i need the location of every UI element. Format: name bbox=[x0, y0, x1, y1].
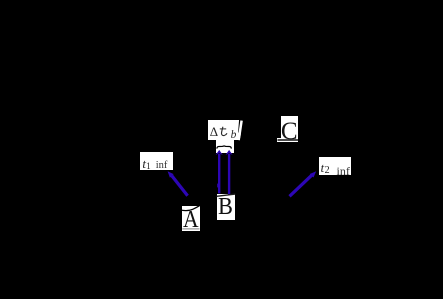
label t1_inf bbox=[140, 152, 173, 170]
marker B box bbox=[217, 194, 235, 220]
vertical arrow B right bbox=[226, 150, 233, 195]
arrow from A up-left to t1_inf bbox=[168, 171, 188, 196]
marker A box bbox=[182, 206, 200, 231]
label delta t_b bbox=[208, 120, 240, 141]
vertical arrow B left bbox=[216, 150, 223, 194]
label C underline bbox=[278, 139, 299, 141]
marker B slanted top line bbox=[217, 194, 236, 196]
cursor stroke right of delta t_b bbox=[239, 121, 242, 141]
math italic t of delta t_b bbox=[220, 127, 227, 136]
marker A arc bbox=[182, 205, 201, 210]
arrow up-right to t2_inf bbox=[290, 171, 317, 196]
overbrace bbox=[217, 146, 231, 149]
label t2_inf bbox=[319, 157, 351, 175]
black slit between box and cursor stroke bbox=[239, 120, 240, 133]
label C box bbox=[281, 116, 298, 140]
label C underline strip bbox=[277, 138, 298, 143]
overbrace box bbox=[216, 140, 234, 153]
marker A gray bottom line bbox=[182, 228, 199, 230]
